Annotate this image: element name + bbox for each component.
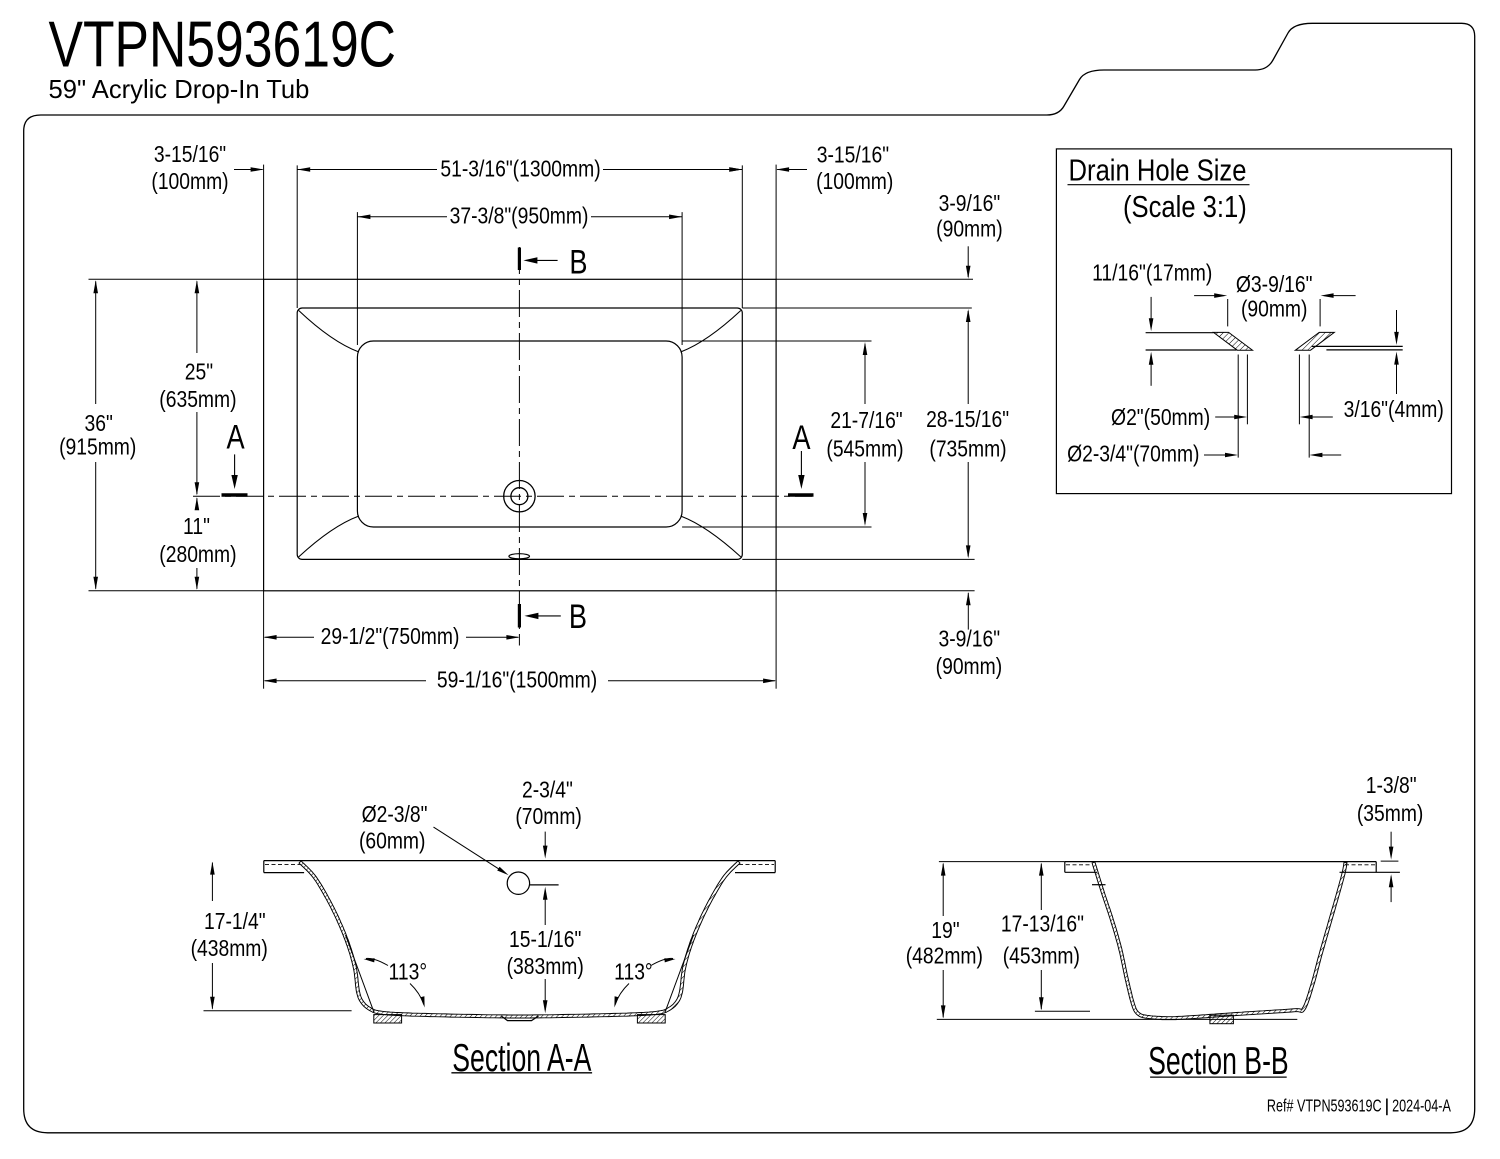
section A-A rim top line <box>264 860 775 862</box>
drain floor right top line <box>1312 345 1403 347</box>
dim diam2 ext lines <box>1246 355 1248 425</box>
drain inner circle <box>511 488 528 505</box>
dim 17-1/4 line <box>211 863 213 901</box>
svg-text:Drain Hole Size: Drain Hole Size <box>1069 153 1247 187</box>
svg-text:(915mm): (915mm) <box>59 435 136 460</box>
svg-text:(Scale 3:1): (Scale 3:1) <box>1123 190 1247 224</box>
dim 2-3/4 arrow <box>544 832 546 855</box>
ext rim right edge up <box>741 165 743 308</box>
dim 17-13/16 line <box>1040 864 1042 910</box>
ext deck top to right <box>776 278 973 280</box>
svg-text:(90mm): (90mm) <box>936 217 1002 242</box>
svg-text:VTPN593619C: VTPN593619C <box>49 9 396 81</box>
plan deck outer rectangle <box>264 279 777 591</box>
drain flange right hatched band <box>1295 332 1334 350</box>
plan corner scoop bottom-right <box>681 516 741 557</box>
svg-text:(100mm): (100mm) <box>816 170 893 195</box>
svg-text:17-13/16": 17-13/16" <box>1001 912 1084 937</box>
svg-text:3-15/16": 3-15/16" <box>154 143 226 168</box>
plan corner scoop top-right <box>681 311 741 353</box>
dim 29-1/2 line <box>265 636 314 638</box>
svg-text:(635mm): (635mm) <box>159 388 236 413</box>
plan corner scoop top-left <box>299 311 359 353</box>
svg-text:(100mm): (100mm) <box>151 170 228 195</box>
svg-text:(280mm): (280mm) <box>159 542 236 567</box>
section B tick bottom <box>518 604 521 628</box>
svg-text:(60mm): (60mm) <box>359 829 425 854</box>
drain floor right bottom line <box>1326 349 1402 351</box>
section A-A bottom reference line <box>204 1010 352 1012</box>
svg-text:11": 11" <box>183 515 210 540</box>
dim 36 line <box>95 281 97 404</box>
svg-text:3-9/16": 3-9/16" <box>939 627 1001 652</box>
drain floor left bottom line <box>1146 349 1237 351</box>
dim 37-3/8 line <box>357 216 447 218</box>
angle 113 leader left-up <box>366 958 388 965</box>
svg-text:21-7/16": 21-7/16" <box>830 409 902 434</box>
horizontal centerline A-A <box>193 495 812 497</box>
svg-text:17-1/4": 17-1/4" <box>204 910 266 935</box>
section B-B rim top line <box>1065 861 1376 863</box>
section A-A drain recess dip <box>502 1016 539 1021</box>
svg-text:(545mm): (545mm) <box>826 437 903 462</box>
dim 3-9/16 top-right arrow <box>967 246 969 277</box>
dim 3-15/16 top-right arrows <box>712 169 741 171</box>
section B-B wall break tick <box>1092 884 1106 886</box>
svg-text:37-3/8"(950mm): 37-3/8"(950mm) <box>450 204 589 229</box>
overflow ellipse <box>509 554 530 559</box>
svg-text:15-1/16": 15-1/16" <box>509 928 581 953</box>
dim 3-15/16 top-left line <box>234 169 263 171</box>
svg-text:2-3/4": 2-3/4" <box>522 778 573 803</box>
ext deck right edge up <box>775 165 777 280</box>
section A-A left lip <box>263 861 265 873</box>
svg-text:Ø2-3/4"(70mm): Ø2-3/4"(70mm) <box>1067 442 1199 467</box>
svg-text:(438mm): (438mm) <box>191 936 268 961</box>
section A-A angle line right <box>665 935 694 1012</box>
angle 113 leader right-up <box>651 958 673 965</box>
svg-text:1-3/8": 1-3/8" <box>1366 774 1417 799</box>
drain outer circle <box>504 481 535 512</box>
plan basin bottom rectangle <box>357 341 682 527</box>
svg-text:Ref# VTPN593619C | 2024-04-A: Ref# VTPN593619C | 2024-04-A <box>1267 1096 1452 1116</box>
section A-A right lip <box>774 861 776 873</box>
ext deck left edge up <box>263 165 265 280</box>
svg-text:113°: 113° <box>614 960 652 985</box>
dim diam 3-9/16 arrows <box>1194 295 1223 297</box>
drain flange left hatched band <box>1214 332 1253 350</box>
angle 113 leader left-down <box>410 984 424 1005</box>
ext basin bottom to right <box>682 526 871 528</box>
ext rim top to right <box>742 307 972 309</box>
svg-text:11/16"(17mm): 11/16"(17mm) <box>1092 261 1212 286</box>
dim 21-7/16 line <box>864 344 866 404</box>
section B tick top <box>518 248 521 271</box>
dim 51-3/16 line <box>297 169 437 171</box>
dim 1-3/8 upper tick <box>1381 860 1399 862</box>
svg-text:(383mm): (383mm) <box>507 954 584 979</box>
ext basin right corner up <box>681 212 683 345</box>
ext rim left edge up <box>296 165 298 308</box>
section A-A drain center tick <box>530 884 559 886</box>
svg-text:3-9/16": 3-9/16" <box>939 192 1001 217</box>
svg-text:B: B <box>569 243 587 282</box>
dim diam2-3/4 arrows <box>1204 454 1234 456</box>
svg-text:(453mm): (453mm) <box>1003 944 1080 969</box>
plan corner scoop bottom-left <box>299 516 359 557</box>
section B-B inner floor tick <box>1035 1010 1090 1012</box>
section A-A title underline <box>451 1072 592 1074</box>
svg-text:Ø3-9/16": Ø3-9/16" <box>1236 272 1313 297</box>
svg-text:(35mm): (35mm) <box>1357 801 1423 826</box>
dim 25 line <box>196 281 198 353</box>
dim 11 line <box>196 498 198 508</box>
svg-text:(70mm): (70mm) <box>515 805 581 830</box>
dim 11/16 arrows <box>1150 297 1152 327</box>
section A tick right <box>788 493 814 497</box>
svg-text:A: A <box>227 418 246 457</box>
svg-text:29-1/2"(750mm): 29-1/2"(750mm) <box>321 625 460 650</box>
svg-text:3/16"(4mm): 3/16"(4mm) <box>1344 397 1444 422</box>
ext deck left edge down <box>263 591 265 689</box>
ext rim bottom to right <box>742 558 974 560</box>
svg-text:(482mm): (482mm) <box>906 944 983 969</box>
svg-text:Ø2-3/8": Ø2-3/8" <box>362 802 428 827</box>
section A tick left <box>222 493 248 497</box>
dim 28-15/16 line <box>967 311 969 404</box>
svg-text:(735mm): (735mm) <box>929 437 1006 462</box>
dim diam2-3/4 ext lines <box>1237 355 1239 458</box>
svg-text:59" Acrylic Drop-In Tub: 59" Acrylic Drop-In Tub <box>49 76 310 104</box>
svg-text:Section A-A: Section A-A <box>452 1037 592 1080</box>
drain detail box <box>1056 149 1451 494</box>
section A-A angle line left <box>346 935 375 1012</box>
svg-text:113°: 113° <box>389 960 427 985</box>
section B-B bottom reference line <box>937 1018 1148 1020</box>
svg-text:36": 36" <box>85 411 113 436</box>
leader diam 2-3/8 <box>434 827 506 873</box>
dim 59-1/16 line <box>265 680 426 682</box>
section A-A foot left <box>374 1015 402 1023</box>
svg-text:19": 19" <box>931 919 959 944</box>
section A-A shell hatched band <box>299 861 740 1018</box>
svg-text:3-15/16": 3-15/16" <box>817 143 889 168</box>
section A-A drain hole circle <box>507 872 529 894</box>
svg-text:B: B <box>569 597 587 636</box>
svg-text:25": 25" <box>185 360 213 385</box>
dim 1-3/8 arrows <box>1390 832 1392 856</box>
section B-B top extension left <box>939 861 1065 863</box>
section B arrow top <box>527 259 558 261</box>
dim 19 line <box>942 864 944 916</box>
section A arrow right <box>800 451 802 485</box>
plan tub rim rectangle <box>297 308 742 559</box>
angle 113 leader right-down <box>615 984 629 1005</box>
ext basin left corner up <box>356 212 358 345</box>
section B-B right lip <box>1375 862 1377 873</box>
section B-B title underline <box>1150 1076 1287 1078</box>
ext deck top to left <box>89 278 264 280</box>
dim diam2 arrows <box>1215 416 1243 418</box>
dim 15-1/16 line <box>544 891 546 926</box>
drain floor left top line <box>1146 332 1214 334</box>
dim 3-9/16 bottom-right arrow <box>967 593 969 630</box>
drain box title underline <box>1068 184 1250 186</box>
dim 3/16 arrows <box>1396 310 1398 341</box>
dim diam 3-9/16 ext lines <box>1227 299 1229 326</box>
svg-text:(90mm): (90mm) <box>1241 297 1307 322</box>
vertical centerline B-B <box>518 247 520 646</box>
svg-text:Ø2"(50mm): Ø2"(50mm) <box>1111 406 1210 431</box>
ext basin top to right <box>682 340 871 342</box>
svg-text:(90mm): (90mm) <box>936 655 1002 680</box>
section A-A foot right <box>637 1015 665 1023</box>
svg-text:51-3/16"(1300mm): 51-3/16"(1300mm) <box>440 157 600 182</box>
section B-B left lip <box>1064 862 1066 873</box>
section B-B under-floor line <box>1148 1018 1297 1020</box>
ext deck bottom to left <box>89 590 264 592</box>
svg-text:28-15/16": 28-15/16" <box>926 408 1009 433</box>
section B-B drain plug <box>1210 1015 1234 1024</box>
ext deck bottom to right <box>776 590 975 592</box>
ext deck right edge down <box>775 591 777 689</box>
svg-text:59-1/16"(1500mm): 59-1/16"(1500mm) <box>437 668 597 693</box>
section B arrow bottom <box>528 615 561 617</box>
section B-B shell hatched band <box>1092 862 1347 1020</box>
section A arrow left <box>234 454 236 485</box>
